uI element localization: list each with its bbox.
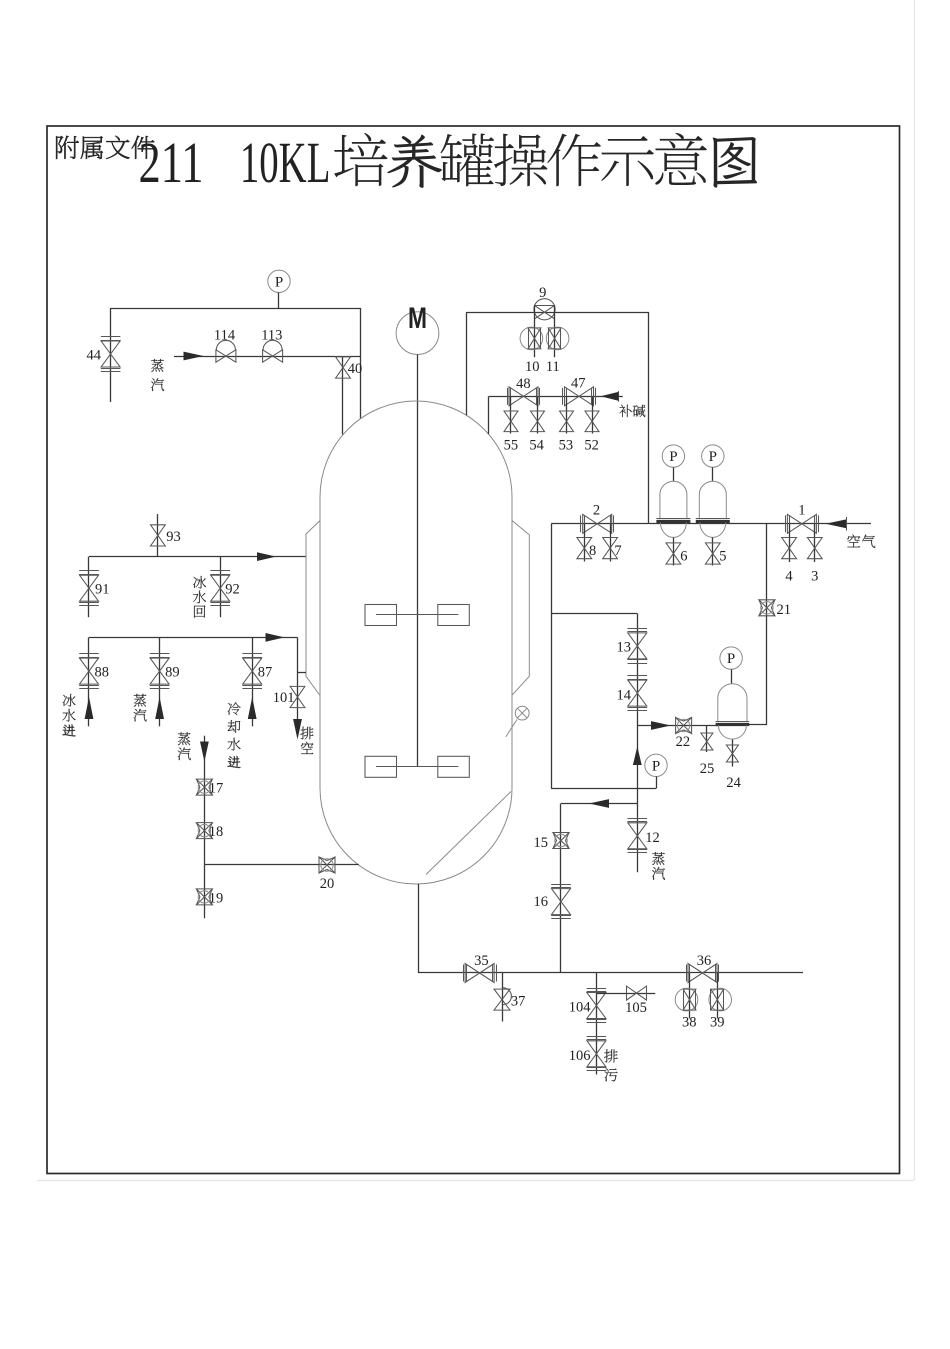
label 114	[214, 328, 236, 344]
wire valve-24 stub	[732, 740, 734, 767]
svg-text:3: 3	[811, 568, 818, 584]
label 1	[798, 503, 805, 519]
wire jacket connector	[298, 672, 307, 674]
svg-text:19: 19	[209, 890, 224, 906]
label 空气	[847, 535, 875, 548]
svg-text:16: 16	[534, 894, 549, 910]
label 55	[504, 438, 519, 454]
svg-text:20: 20	[320, 876, 335, 892]
jacket right	[512, 521, 529, 696]
internal drain pipe	[426, 792, 511, 875]
label 88	[95, 665, 110, 681]
label 36	[697, 953, 712, 969]
flow arrow steam right	[184, 352, 204, 361]
flow arrow steam down	[200, 742, 209, 762]
label 蒸汽 (cooling group)	[134, 694, 147, 722]
svg-text:114: 114	[214, 328, 236, 344]
label 44	[87, 348, 102, 364]
valve 53	[560, 411, 574, 432]
svg-text:P: P	[652, 758, 660, 774]
wire chilled water return header	[89, 556, 306, 558]
flow arrow up into valve 88	[85, 697, 94, 719]
label 蒸汽 (near valve 12)	[652, 852, 665, 880]
valve 2	[581, 514, 614, 533]
wire valve-53 drop	[566, 396, 568, 433]
title 211 10KL培养罐操作示意图	[139, 130, 758, 195]
wire valve-52 drop	[592, 396, 594, 433]
pressure gauge P (filter B)	[702, 445, 724, 481]
svg-text:14: 14	[617, 688, 632, 704]
svg-text:52: 52	[584, 438, 599, 454]
wire alkali manifold	[489, 391, 623, 402]
svg-text:91: 91	[95, 582, 110, 598]
svg-text:22: 22	[676, 734, 691, 750]
svg-text:2: 2	[593, 503, 600, 519]
svg-text:87: 87	[258, 665, 273, 681]
svg-text:7: 7	[614, 543, 621, 559]
impeller upper crossbar	[376, 614, 458, 616]
jacket left	[306, 521, 320, 696]
label 17	[209, 781, 224, 797]
valve 113	[263, 340, 283, 362]
label 24	[726, 775, 741, 791]
svg-text:10: 10	[525, 359, 540, 375]
valve 9	[534, 299, 555, 320]
pressure gauge P (sample)	[645, 754, 667, 788]
valve 87	[242, 654, 262, 689]
label 101	[273, 690, 295, 706]
svg-text:54: 54	[529, 438, 544, 454]
svg-text:47: 47	[571, 376, 586, 392]
svg-text:12: 12	[645, 830, 660, 846]
wire valve-55 drop	[510, 396, 512, 433]
valve 92	[210, 571, 230, 606]
label 蒸汽 (bottom steam)	[178, 732, 191, 760]
svg-text:P: P	[669, 449, 677, 465]
wire valve-37 stub	[502, 973, 504, 1022]
impeller upper left blade	[365, 605, 397, 626]
pressure gauge P (filter A)	[662, 445, 684, 481]
wire branch to valve 20	[204, 864, 358, 866]
valve 37	[494, 988, 511, 1010]
valve 47	[563, 387, 596, 406]
svg-text:8: 8	[589, 543, 596, 559]
flow arrow inlet right	[266, 633, 285, 642]
label 21	[777, 602, 792, 618]
valve 104	[587, 989, 607, 1023]
valve 54	[531, 411, 545, 432]
valve 19	[196, 889, 212, 905]
valve 12	[628, 819, 648, 853]
wire valve-105 stub	[596, 993, 655, 995]
valve 101	[290, 686, 305, 707]
label 106	[569, 1048, 591, 1064]
valve 36	[687, 964, 719, 983]
valve 25	[701, 733, 713, 750]
svg-text:40: 40	[348, 361, 363, 377]
wire manifold left drop	[488, 396, 490, 434]
drawing border frame	[47, 126, 900, 1174]
label 22	[676, 734, 691, 750]
label 19	[209, 890, 224, 906]
impeller lower left blade	[365, 756, 397, 777]
wire valve-92 drop	[220, 557, 222, 618]
wire valve-54 drop	[537, 396, 539, 433]
flow arrow alkali left	[601, 392, 619, 401]
label 14	[617, 688, 632, 704]
wire valve-11 stub	[554, 305, 556, 357]
label 113	[261, 328, 282, 344]
wire valve-6 stub	[673, 538, 675, 566]
valve 52	[585, 411, 599, 432]
valve 11	[546, 327, 569, 350]
label 蒸汽 (steam top-left)	[151, 359, 164, 391]
valve 39	[709, 988, 732, 1011]
svg-text:44: 44	[87, 348, 102, 364]
svg-text:106: 106	[569, 1048, 591, 1064]
valve 7	[603, 538, 618, 559]
svg-text:93: 93	[166, 529, 181, 545]
wire steam column	[204, 736, 206, 919]
wire valve-7 drop	[610, 524, 612, 562]
valve 35	[464, 964, 497, 983]
label 39	[710, 1015, 725, 1031]
wire left riser	[110, 308, 112, 402]
svg-text:39: 39	[710, 1015, 725, 1031]
valve 105	[627, 986, 647, 1000]
valve 1	[786, 514, 819, 533]
pressure gauge P (vessel C)	[720, 647, 742, 684]
wire blowdown column	[596, 973, 598, 1075]
wire branch to valve 22	[637, 725, 717, 727]
filter vessel C	[716, 684, 750, 739]
svg-text:37: 37	[511, 994, 526, 1010]
label 12	[645, 830, 660, 846]
label 5	[719, 549, 726, 565]
valve 15	[553, 833, 569, 849]
valve 114	[216, 340, 236, 362]
label 冰水回	[193, 576, 206, 618]
valve 8	[577, 538, 592, 559]
svg-text:P: P	[275, 274, 283, 290]
wire steam line	[174, 356, 361, 358]
wire harvest riser	[560, 804, 562, 974]
valve 22	[676, 718, 692, 734]
label 附属文件	[56, 136, 155, 159]
valve 17	[196, 779, 212, 795]
svg-text:53: 53	[559, 438, 574, 454]
svg-text:1: 1	[798, 503, 805, 519]
valve 48	[508, 387, 540, 406]
label 89	[165, 665, 180, 681]
valve 106	[587, 1037, 607, 1071]
agitator shaft	[417, 355, 419, 767]
label 9	[539, 285, 546, 301]
svg-text:35: 35	[474, 953, 489, 969]
label 92	[225, 582, 240, 598]
impeller lower crossbar	[376, 766, 458, 768]
wire valve-39 drop	[717, 973, 719, 1018]
svg-text:17: 17	[209, 781, 224, 797]
label 87	[258, 665, 273, 681]
svg-text:36: 36	[697, 953, 712, 969]
svg-text:211: 211	[139, 130, 204, 195]
svg-text:92: 92	[225, 582, 240, 598]
svg-text:101: 101	[273, 690, 295, 706]
wire exhaust right drop	[648, 312, 650, 524]
svg-text:13: 13	[617, 640, 632, 656]
svg-text:M: M	[408, 302, 427, 335]
wire valve-25 stub	[706, 726, 708, 753]
valve 93	[151, 525, 166, 546]
label 15	[534, 835, 549, 851]
svg-text:113: 113	[261, 328, 282, 344]
label 104	[569, 1000, 592, 1016]
flow arrow left	[589, 799, 609, 808]
air filter B	[696, 481, 730, 537]
wire sample main line	[637, 614, 639, 873]
label 40	[348, 361, 363, 377]
valve 88	[79, 654, 99, 689]
sight glass port	[506, 706, 529, 737]
svg-text:4: 4	[785, 568, 793, 584]
label 11	[546, 359, 560, 375]
label 52	[584, 438, 599, 454]
air filter A	[656, 481, 690, 537]
wire valve-3 drop	[814, 524, 816, 562]
svg-text:89: 89	[165, 665, 180, 681]
wire exhaust left drop	[466, 312, 468, 415]
svg-text:P: P	[727, 651, 735, 667]
wire cross line	[551, 788, 656, 790]
label 补碱	[619, 405, 645, 417]
svg-text:5: 5	[719, 549, 726, 565]
wire valve-91 drop	[88, 557, 90, 618]
valve 44	[101, 337, 121, 372]
label 47	[571, 376, 586, 392]
svg-text:11: 11	[546, 359, 560, 375]
wire vent drop	[297, 637, 299, 721]
label 6	[680, 549, 687, 565]
wire valve-8 drop	[584, 524, 586, 562]
valve 10	[520, 327, 543, 350]
svg-text:105: 105	[625, 1000, 647, 1016]
wire bottom drain header	[418, 972, 803, 974]
valve 13	[628, 629, 648, 664]
svg-text:15: 15	[534, 835, 549, 851]
label 53	[559, 438, 574, 454]
tank bottom outlet	[418, 884, 420, 973]
label 20	[320, 876, 335, 892]
label 35	[474, 953, 489, 969]
label 105	[625, 1000, 647, 1016]
valve 5	[705, 543, 720, 564]
label 48	[516, 376, 531, 392]
impeller upper right blade	[438, 605, 470, 626]
label 3	[811, 568, 818, 584]
impeller lower right blade	[438, 756, 470, 777]
valve 3	[807, 538, 822, 559]
valve 91	[79, 571, 99, 606]
pressure gauge P (top)	[268, 270, 290, 308]
label 25	[700, 761, 715, 777]
valve 20	[319, 857, 335, 873]
wire cooling inlet header	[89, 637, 298, 639]
label 2	[593, 503, 600, 519]
svg-text:18: 18	[209, 824, 224, 840]
svg-text:104: 104	[569, 1000, 592, 1016]
valve 16	[551, 885, 571, 919]
svg-text:10KL: 10KL	[240, 130, 331, 195]
label 排污	[604, 1049, 618, 1081]
label 38	[682, 1015, 697, 1031]
svg-text:88: 88	[95, 665, 110, 681]
label 8	[589, 543, 596, 559]
flow arrow air left	[826, 517, 847, 531]
label 10	[525, 359, 540, 375]
svg-text:21: 21	[777, 602, 792, 618]
flow arrow up into valve 89	[155, 697, 164, 719]
valve 18	[196, 823, 212, 839]
label 排空	[300, 727, 313, 754]
wire arrow line	[561, 803, 637, 805]
label 7	[614, 543, 621, 559]
svg-text:25: 25	[700, 761, 715, 777]
label 91	[95, 582, 110, 598]
flow arrow return right	[257, 552, 276, 561]
valve 14	[628, 676, 648, 711]
flow arrow up into valve 87	[248, 697, 257, 719]
wire valve-88 drop	[88, 637, 90, 726]
label 93	[166, 529, 181, 545]
wire valve-93 stub	[157, 514, 159, 557]
wire top header	[111, 308, 361, 310]
wire branch header	[551, 613, 637, 615]
valve 4	[782, 538, 797, 559]
svg-text:P: P	[709, 449, 717, 465]
wire to vessel right	[747, 724, 767, 726]
label 37	[511, 994, 526, 1010]
svg-text:6: 6	[680, 549, 687, 565]
wire valve-89 drop	[159, 637, 161, 726]
flow arrow vent down	[293, 719, 302, 740]
wire valve-87 drop	[252, 637, 254, 726]
wire valve-5 stub	[712, 538, 714, 566]
flow arrow to valve 22	[651, 721, 671, 730]
svg-text:55: 55	[504, 438, 519, 454]
label 18	[209, 824, 224, 840]
tank vessel body	[320, 401, 512, 884]
label 13	[617, 640, 632, 656]
wire riser to tank dome left	[360, 308, 362, 418]
wire valve-40 drop	[342, 356, 344, 435]
svg-text:48: 48	[516, 376, 531, 392]
label 16	[534, 894, 549, 910]
wire valve-10 stub	[534, 305, 536, 357]
svg-text:9: 9	[539, 285, 546, 301]
label 冷却水进	[227, 702, 240, 768]
motor M circle	[396, 302, 439, 354]
valve 55	[504, 411, 518, 432]
flow arrow up main line	[633, 747, 642, 766]
svg-text:38: 38	[682, 1015, 697, 1031]
valve 38	[675, 988, 698, 1011]
label 冰水进	[62, 694, 75, 736]
valve 21	[759, 600, 775, 616]
valve 89	[150, 654, 170, 689]
valve 40	[336, 357, 351, 378]
valve 24	[726, 745, 738, 762]
wire tank-side riser	[551, 524, 553, 789]
wire valve-4 drop	[789, 524, 791, 562]
wire exhaust header	[466, 312, 649, 314]
svg-text:24: 24	[726, 775, 741, 791]
wire valve-38 drop	[689, 973, 691, 1018]
wire air header	[551, 523, 871, 525]
label 4	[785, 568, 793, 584]
label 54	[529, 438, 544, 454]
valve 6	[666, 543, 681, 564]
wire branch to valve 21	[766, 524, 768, 725]
